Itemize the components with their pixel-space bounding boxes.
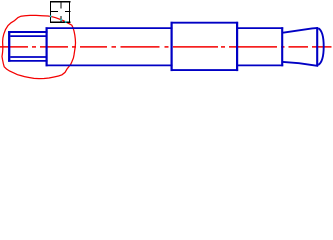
cyan crossing artifact 3 — [65, 21, 67, 23]
shaft small threaded section: outer top edge — [8, 31, 48, 33]
shaft small threaded section: inner top line (thread) — [10, 35, 46, 37]
shaft section 2: top edge — [46, 27, 173, 29]
shaft small threaded section: outer bottom edge — [8, 60, 48, 62]
shoulder edge between section 1 and section 2 — [45, 27, 47, 66]
black icon box: bottom edge — [50, 21, 70, 23]
black icon box: top center stub — [60, 2, 62, 9]
center block: right edge — [236, 22, 238, 71]
shaft section 4: top edge — [236, 27, 283, 29]
shaft small threaded section: left end edge — [8, 31, 10, 62]
shaft section 2: bottom edge — [46, 64, 173, 66]
black icon box: bottom center stub — [60, 16, 62, 22]
shaft section 4: bottom edge — [236, 64, 283, 66]
cyan crossing artifact 1 — [50, 16, 52, 18]
black icon box: middle-right tick — [65, 11, 70, 13]
revision ellipse (red freehand markup loop) — [2, 15, 76, 78]
center block: bottom edge — [171, 69, 239, 71]
black icon box: top edge — [50, 1, 70, 3]
tapered knob: bottom edge — [283, 62, 318, 66]
center block: top edge — [171, 22, 239, 24]
black icon box: right edge — [69, 1, 71, 23]
tapered knob: large end edge — [316, 27, 318, 66]
centerline (red dash-dot axis) — [0, 46, 332, 48]
cyan crossing artifact 2 — [60, 19, 62, 21]
section 4 end face edge — [281, 27, 283, 66]
black icon box: left edge — [50, 1, 52, 23]
dome end cap — [318, 28, 323, 65]
shaft small threaded section: inner bottom line (thread) — [10, 56, 46, 58]
tapered knob: top edge — [283, 28, 318, 33]
black icon box: middle-left tick — [50, 11, 58, 13]
center block: left edge — [171, 22, 173, 71]
